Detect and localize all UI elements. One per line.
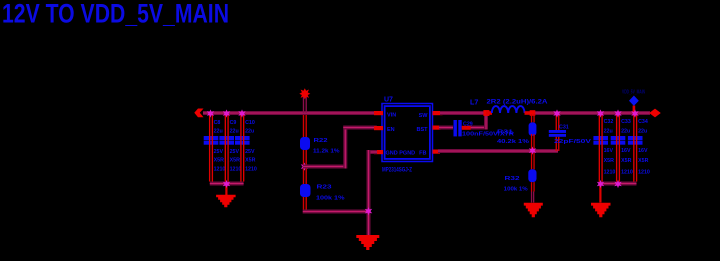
wire output bank ground stub xyxy=(599,185,601,203)
wire main input rail xyxy=(203,111,381,115)
wire EN net route xyxy=(303,126,377,169)
resistor R22 (EN divider top) xyxy=(300,137,340,155)
capacitor C34 (output bank 3) xyxy=(628,115,650,182)
svg-text:16V: 16V xyxy=(621,148,631,154)
svg-text:22u: 22u xyxy=(621,129,630,135)
svg-text:11.2k 1%: 11.2k 1% xyxy=(313,149,340,155)
svg-text:25V: 25V xyxy=(214,149,224,155)
junction output bank bottom at C32 xyxy=(597,180,604,188)
svg-text:X5R: X5R xyxy=(621,158,631,164)
junction output rail at C32 xyxy=(597,109,604,117)
svg-text:GND PGND: GND PGND xyxy=(386,151,416,157)
wire output rail xyxy=(533,111,650,115)
wire input bank ground stub xyxy=(225,185,227,195)
power stub 12V rail tap xyxy=(299,88,310,113)
svg-text:16V: 16V xyxy=(604,148,614,154)
junction input rail at C8 xyxy=(207,109,214,117)
ground input bank xyxy=(216,195,236,208)
power flag VDD_5V_MAIN xyxy=(622,90,645,113)
junction input bank bottom xyxy=(223,180,230,188)
capacitor C8 (input bank 1) xyxy=(204,115,226,182)
svg-text:22u: 22u xyxy=(230,129,239,135)
svg-text:R23: R23 xyxy=(317,185,332,191)
svg-text:L7: L7 xyxy=(470,98,478,107)
ground IC gnd xyxy=(356,235,379,250)
svg-text:1210: 1210 xyxy=(245,167,257,173)
inductor L7 xyxy=(470,98,548,115)
svg-text:22u: 22u xyxy=(214,129,223,135)
ground output bank xyxy=(591,203,611,218)
svg-text:1210: 1210 xyxy=(230,167,242,173)
svg-text:C33: C33 xyxy=(621,119,631,125)
pin SW stub xyxy=(433,111,443,115)
svg-text:2R2 (2.2uH)/6.2A: 2R2 (2.2uH)/6.2A xyxy=(487,99,549,106)
ground FB divider xyxy=(524,203,543,218)
svg-text:C8: C8 xyxy=(214,120,221,126)
svg-text:40.2k 1%: 40.2k 1% xyxy=(497,139,529,145)
svg-text:VDD_5V_MAIN: VDD_5V_MAIN xyxy=(622,90,645,96)
svg-text:C10: C10 xyxy=(245,120,255,126)
svg-text:MP2314SGJ-Z: MP2314SGJ-Z xyxy=(382,167,412,174)
pin FB stub xyxy=(433,150,441,154)
wire EN divider mid lead xyxy=(303,150,307,184)
wire BST net xyxy=(439,113,488,130)
svg-text:R22: R22 xyxy=(314,138,328,144)
junction SW node xyxy=(483,110,489,116)
wire EN divider bottom to gnd net xyxy=(303,210,369,214)
pin GND stub xyxy=(374,150,383,154)
svg-text:X5R: X5R xyxy=(638,158,648,164)
svg-text:25V: 25V xyxy=(245,149,255,155)
capacitor C10 (input bank 3) xyxy=(235,115,257,182)
junction output rail at C31 xyxy=(553,109,560,117)
svg-text:1210: 1210 xyxy=(638,170,650,176)
wire EN divider upper lead xyxy=(303,115,307,137)
svg-text:22u: 22u xyxy=(638,129,647,135)
capacitor C29 (bootstrap) xyxy=(454,120,515,138)
junction input rail at C10 xyxy=(238,109,245,117)
node 12V input off-page arrow xyxy=(194,109,203,118)
junction input rail at C9 xyxy=(223,109,230,117)
svg-text:R31: R31 xyxy=(497,130,513,136)
wire input bank bottom xyxy=(210,182,244,186)
capacitor C31 (feed-forward) xyxy=(549,115,592,151)
svg-text:12V TO VDD_5V_MAIN: 12V TO VDD_5V_MAIN xyxy=(2,0,229,28)
svg-text:C29: C29 xyxy=(463,122,473,128)
svg-text:FB: FB xyxy=(419,151,426,157)
wire GND pin to ground xyxy=(367,150,378,235)
svg-text:BST: BST xyxy=(417,127,429,133)
resistor R32 (FB bottom) xyxy=(504,153,537,203)
svg-text:1210: 1210 xyxy=(621,170,633,176)
svg-text:C34: C34 xyxy=(638,119,648,125)
svg-text:22u: 22u xyxy=(245,129,254,135)
svg-text:X5R: X5R xyxy=(214,158,224,164)
svg-text:SW: SW xyxy=(419,113,429,119)
svg-text:22pF/50V: 22pF/50V xyxy=(554,139,592,145)
svg-text:C9: C9 xyxy=(230,120,237,126)
svg-text:U7: U7 xyxy=(384,97,393,104)
junction EN tap xyxy=(301,163,308,171)
svg-text:C31: C31 xyxy=(559,125,569,131)
junction output rail at C34 xyxy=(631,109,638,117)
svg-text:X5R: X5R xyxy=(230,158,240,164)
wire SW to inductor xyxy=(440,111,486,115)
svg-text:22u: 22u xyxy=(604,129,613,135)
capacitor C32 (output bank 1) xyxy=(593,115,615,182)
svg-text:100k 1%: 100k 1% xyxy=(504,187,528,193)
svg-text:R32: R32 xyxy=(505,176,520,182)
junction FB node xyxy=(529,147,536,155)
svg-text:C32: C32 xyxy=(604,119,614,125)
wire FB net xyxy=(438,149,558,153)
resistor R31 (FB top) xyxy=(497,114,536,150)
svg-text:16V: 16V xyxy=(638,148,648,154)
svg-text:25V: 25V xyxy=(230,149,240,155)
capacitor C9 (input bank 2) xyxy=(219,115,241,182)
junction SW-out node xyxy=(530,110,536,116)
svg-text:EN: EN xyxy=(387,127,395,133)
svg-text:X5R: X5R xyxy=(245,158,255,164)
svg-text:VIN: VIN xyxy=(387,113,396,119)
svg-text:1210: 1210 xyxy=(604,170,616,176)
pin VIN stub xyxy=(374,111,383,115)
svg-text:1210: 1210 xyxy=(214,167,226,173)
junction gnd net xyxy=(365,207,372,215)
resistor R23 (EN divider bottom) xyxy=(300,184,345,202)
junction output bank bottom at C33 xyxy=(614,180,621,188)
wire EN divider lower lead xyxy=(303,197,307,210)
title 12V TO VDD_5V_MAIN xyxy=(2,0,229,28)
svg-text:100k 1%: 100k 1% xyxy=(316,196,345,202)
junction output rail at C33 xyxy=(614,109,621,117)
op-amp U7 buck regulator IC xyxy=(382,97,433,174)
node VDD_5V_MAIN off-page diamond xyxy=(649,109,661,118)
pin BST stub xyxy=(433,126,441,130)
wire output bank bottom xyxy=(599,182,637,186)
pin EN stub xyxy=(374,126,383,130)
svg-text:X5R: X5R xyxy=(604,158,614,164)
capacitor C33 (output bank 2) xyxy=(611,115,633,182)
